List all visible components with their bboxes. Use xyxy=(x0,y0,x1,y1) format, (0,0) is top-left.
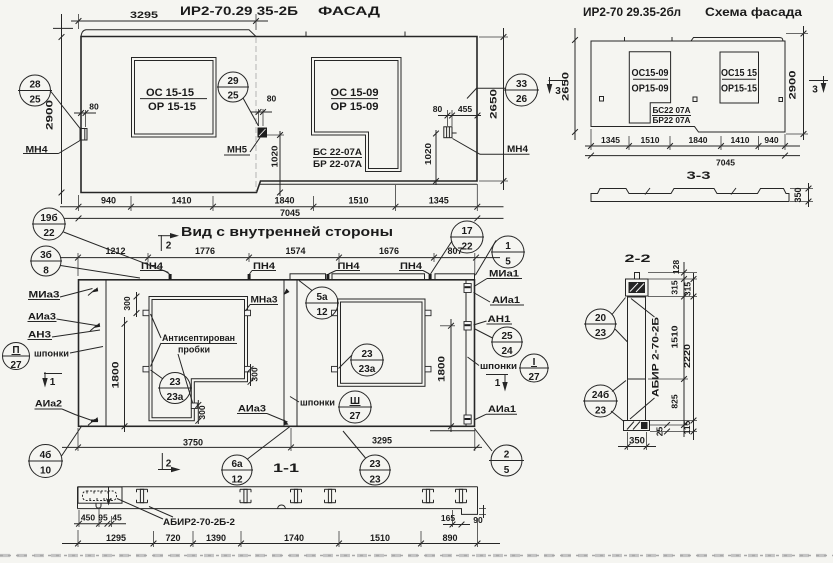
pointer with arrow in block xyxy=(108,488,110,505)
svg-text:Схема фасада: Схема фасада xyxy=(705,7,803,19)
svg-text:350: 350 xyxy=(793,187,803,202)
callout 23/23 bottom xyxy=(343,431,391,486)
svg-text:2: 2 xyxy=(504,450,510,461)
label АИа3 left xyxy=(28,312,97,326)
svg-text:2220: 2220 xyxy=(682,344,692,368)
callout 28/25 xyxy=(18,75,52,106)
plug w1 bottom xyxy=(191,403,197,409)
label ПН4 no.4 xyxy=(399,261,430,274)
svg-text:25: 25 xyxy=(501,331,513,342)
plug w1 top-right xyxy=(245,310,251,316)
middle bottom dim 3750 / 3295 xyxy=(62,428,482,451)
svg-text:1: 1 xyxy=(50,377,56,388)
dim 300 w1 top xyxy=(122,292,139,317)
middle window 1 (L-shaped) xyxy=(149,297,248,421)
svg-text:ОР15-15: ОР15-15 xyxy=(721,84,757,95)
window ОС15-15 opening xyxy=(132,58,217,138)
hook ПН4 no.2 xyxy=(248,274,251,280)
svg-text:2: 2 xyxy=(166,241,172,252)
2-2 extension lines xyxy=(648,273,697,432)
facade panel outline xyxy=(81,37,477,193)
top pad 2 xyxy=(332,274,425,280)
mounting mark right xyxy=(779,98,783,102)
svg-text:1: 1 xyxy=(495,378,501,389)
svg-text:2900: 2900 xyxy=(45,100,56,130)
svg-text:33: 33 xyxy=(516,79,528,90)
svg-text:ОР 15-09: ОР 15-09 xyxy=(331,101,379,113)
callout 5а/12 xyxy=(299,281,339,320)
svg-text:1510: 1510 xyxy=(370,533,390,543)
1-1 strip bottom edge xyxy=(78,508,463,510)
label Антисептированы пробки xyxy=(151,314,238,403)
dim 80 at left anchor xyxy=(74,102,99,128)
svg-text:Антисептирован: Антисептирован xyxy=(162,333,235,343)
callout 29/25 xyxy=(217,72,249,102)
svg-text:БР22 07А: БР22 07А xyxy=(653,116,691,125)
svg-text:5: 5 xyxy=(505,257,511,268)
svg-text:1800: 1800 xyxy=(437,356,447,382)
hook ПН4 no.1 xyxy=(169,274,172,280)
svg-text:23: 23 xyxy=(595,406,607,417)
schema parapet band xyxy=(691,38,783,42)
svg-text:10: 10 xyxy=(40,466,52,477)
callout 19б/22 xyxy=(32,208,169,273)
label АИа1 xyxy=(474,293,525,306)
svg-text:29: 29 xyxy=(227,76,239,87)
label МИа3 xyxy=(28,289,93,300)
label ПН4 no.3 xyxy=(329,261,361,274)
svg-text:1410: 1410 xyxy=(171,196,191,206)
top pad 3 xyxy=(435,274,475,280)
svg-text:1510: 1510 xyxy=(670,325,680,348)
label МН5 xyxy=(224,138,260,156)
plug w1 top-left xyxy=(143,310,149,316)
callout 24б/23 xyxy=(583,381,626,422)
svg-text:1574: 1574 xyxy=(285,246,305,256)
dim 300 w1 notch xyxy=(248,364,260,386)
lifting tick right xyxy=(404,32,406,37)
svg-text:АИа1: АИа1 xyxy=(488,404,516,414)
schema lifting tick left xyxy=(624,37,626,41)
svg-text:22: 22 xyxy=(461,242,473,253)
facade right dim 2650 xyxy=(479,28,508,190)
plug w1 mid-left xyxy=(143,366,149,372)
label АБИР2-70-2Б-2 xyxy=(117,499,235,528)
mounting mark middle xyxy=(693,97,697,102)
svg-text:23: 23 xyxy=(369,475,381,486)
callout 17/22 xyxy=(431,221,485,274)
label ПН4 no.2 xyxy=(250,261,277,274)
svg-text:ФАСАД: ФАСАД xyxy=(318,4,381,18)
svg-text:25: 25 xyxy=(29,95,41,106)
schema lifting tick right xyxy=(671,37,673,41)
svg-text:940: 940 xyxy=(101,196,116,206)
schema window ОС15-09 (L-shaped) xyxy=(629,52,670,123)
svg-text:6а: 6а xyxy=(231,459,243,470)
section mark 3 right xyxy=(809,76,828,96)
svg-text:3б: 3б xyxy=(40,249,52,261)
svg-text:7045: 7045 xyxy=(280,208,300,218)
joint hook top xyxy=(284,289,290,296)
svg-text:шпонки: шпонки xyxy=(300,398,335,408)
middle top dim row 1212 1776 1574 1676 807 xyxy=(60,246,500,276)
label АБИР 2-70-2Б rotated xyxy=(630,299,661,420)
window label ОС15-09/ОР15-09 xyxy=(331,87,379,113)
svg-text:5: 5 xyxy=(504,465,510,476)
svg-text:МИа1: МИа1 xyxy=(489,269,519,279)
svg-text:26: 26 xyxy=(516,94,528,105)
2-2 body bar xyxy=(628,297,646,421)
label МИа1 xyxy=(474,269,522,287)
svg-text:45: 45 xyxy=(112,513,122,523)
facade bottom edge second line xyxy=(260,183,477,185)
1-1 bottom dim row 1295 720 1390 1740 1510 890 xyxy=(62,518,500,547)
callout 3б/8 xyxy=(30,246,140,278)
schema right dim 2900 xyxy=(786,26,808,140)
facade dim 7045 xyxy=(64,208,504,221)
1-1 window channel 3 xyxy=(291,489,302,502)
callout 6а/12 xyxy=(221,427,290,486)
section 3-3 break marks xyxy=(645,188,650,195)
schema window label ОС15-09/ОР15-09 xyxy=(632,68,669,95)
schema label БС22 07А/БР22 07А xyxy=(652,106,691,125)
svg-text:1390: 1390 xyxy=(206,533,226,543)
plug w1 mid-right xyxy=(245,366,251,372)
svg-text:4б: 4б xyxy=(40,449,52,461)
facade bottom dim row 940 1410 1840 1510 1345 xyxy=(60,184,504,211)
svg-text:27: 27 xyxy=(349,411,361,422)
svg-text:АБИР 2-70-2Б: АБИР 2-70-2Б xyxy=(651,316,661,397)
2-2 top stub xyxy=(635,273,640,280)
label АН1 xyxy=(474,314,513,325)
1-1 window channel 6 xyxy=(456,489,467,502)
svg-text:300: 300 xyxy=(197,405,207,419)
label АН3 xyxy=(28,330,101,340)
section mark 3 left xyxy=(547,77,565,97)
panel bottom edge double line right xyxy=(430,430,475,432)
svg-text:2-2: 2-2 xyxy=(625,253,651,265)
dim 300 w1 bottom xyxy=(195,400,207,424)
svg-text:БР 22-07А: БР 22-07А xyxy=(313,159,363,169)
dim 1800 left xyxy=(111,317,128,432)
section 3-3 profile xyxy=(591,189,789,202)
svg-text:1840: 1840 xyxy=(689,135,708,145)
svg-text:3295: 3295 xyxy=(372,436,392,446)
svg-text:95: 95 xyxy=(98,513,108,523)
rib anchor mark mid xyxy=(94,323,101,328)
svg-text:12: 12 xyxy=(231,475,243,486)
rib plug right bottom xyxy=(464,415,471,424)
2-2 dim line inner: 128 315 1510 825 xyxy=(670,260,687,437)
svg-text:1410: 1410 xyxy=(731,135,750,145)
hook ПН4 no.3 xyxy=(326,274,329,280)
svg-text:шпонки: шпонки xyxy=(34,349,69,359)
section mark 2 bottom xyxy=(158,453,181,472)
svg-text:1840: 1840 xyxy=(274,196,294,206)
svg-text:315: 315 xyxy=(670,280,680,294)
svg-text:АИа1: АИа1 xyxy=(492,295,520,305)
callout 23/23а w1 xyxy=(151,370,193,404)
svg-text:22: 22 xyxy=(43,228,55,239)
svg-text:115: 115 xyxy=(682,420,692,434)
facade joint line xyxy=(255,37,257,192)
svg-text:пробки: пробки xyxy=(178,345,210,355)
svg-text:455: 455 xyxy=(458,104,472,114)
svg-text:шпонки: шпонки xyxy=(480,361,517,371)
svg-text:3: 3 xyxy=(555,86,561,97)
svg-text:23а: 23а xyxy=(167,392,184,403)
svg-text:28: 28 xyxy=(29,80,41,91)
top pad 1 xyxy=(290,274,326,280)
svg-text:МН4: МН4 xyxy=(507,144,528,154)
svg-text:3: 3 xyxy=(812,85,818,96)
svg-text:МНа3: МНа3 xyxy=(251,295,278,305)
leader 28/25 to anchor xyxy=(51,91,81,129)
label шпонки + callout Ш/27 xyxy=(290,391,372,423)
lifting tick left xyxy=(305,32,307,37)
svg-text:1740: 1740 xyxy=(284,533,304,543)
plug w2 top-right xyxy=(425,310,431,316)
1-1 strip right end + foot xyxy=(462,487,478,515)
label МН4 right xyxy=(453,139,530,155)
label ПН4 no.1 xyxy=(140,261,170,274)
joint hook bottom xyxy=(284,419,289,426)
svg-text:МН5: МН5 xyxy=(227,145,247,155)
section mark 1 left xyxy=(42,372,62,388)
plug w2 top-left xyxy=(332,310,338,316)
left dim 2900 xyxy=(45,14,74,204)
svg-text:19б: 19б xyxy=(40,212,57,224)
schema dim 7045 xyxy=(585,153,800,168)
svg-text:3-3: 3-3 xyxy=(687,170,711,182)
svg-text:825: 825 xyxy=(670,394,680,408)
svg-text:20: 20 xyxy=(595,313,607,324)
rib plug right top xyxy=(464,284,471,293)
1-1 dims 165 and 90 xyxy=(441,505,486,527)
section mark 1 right xyxy=(486,375,508,392)
schema panel outline xyxy=(591,41,785,132)
svg-text:2650: 2650 xyxy=(561,72,571,101)
svg-text:АН1: АН1 xyxy=(488,314,511,324)
callout 1/5 xyxy=(476,236,526,275)
hook ПН4 no.4 xyxy=(429,274,432,280)
svg-text:2: 2 xyxy=(166,459,172,470)
svg-text:АИа3: АИа3 xyxy=(238,404,266,414)
svg-text:12: 12 xyxy=(316,307,328,318)
dim 1800 right xyxy=(437,319,456,432)
svg-text:23: 23 xyxy=(169,377,181,388)
1-1 window channel 4 xyxy=(325,489,336,502)
svg-text:МИа3: МИа3 xyxy=(29,290,60,300)
anchor МН4 left xyxy=(80,129,87,141)
svg-text:3295: 3295 xyxy=(130,10,158,20)
svg-text:ОС15 15: ОС15 15 xyxy=(721,68,757,79)
plug w2 mid-right xyxy=(425,366,431,372)
svg-text:128: 128 xyxy=(671,260,681,274)
svg-text:1510: 1510 xyxy=(641,135,660,145)
svg-text:940: 940 xyxy=(764,135,778,145)
svg-text:1776: 1776 xyxy=(195,246,215,256)
svg-text:25: 25 xyxy=(227,91,239,102)
1-1 window channel 1 xyxy=(137,489,148,502)
2-2 top box xyxy=(626,273,649,297)
1-1 strip top edge xyxy=(78,486,478,488)
svg-text:ПН4: ПН4 xyxy=(253,261,275,271)
svg-text:17: 17 xyxy=(461,226,473,237)
svg-text:165: 165 xyxy=(441,513,455,523)
svg-text:3750: 3750 xyxy=(183,438,203,448)
callout 20/23 xyxy=(584,298,628,343)
1-1 dims 450 95 45 xyxy=(74,508,126,527)
svg-text:АН3: АН3 xyxy=(28,330,51,340)
svg-text:450: 450 xyxy=(81,513,95,523)
schema dim row 1345 1510 1840 1410 940 xyxy=(585,129,800,150)
callout 25/24 xyxy=(474,327,523,357)
facade parapet band xyxy=(81,30,256,37)
svg-text:ОР 15-15: ОР 15-15 xyxy=(148,101,196,113)
1-1 strip left end xyxy=(77,487,79,509)
2-2 dim 25 xyxy=(655,422,670,436)
svg-text:23: 23 xyxy=(369,459,381,470)
1-1 bottom notch xyxy=(278,505,286,509)
svg-text:1020: 1020 xyxy=(423,143,433,165)
svg-text:23: 23 xyxy=(595,328,607,339)
svg-text:БС 22-07А: БС 22-07А xyxy=(313,147,363,157)
1-1 window channel 2 xyxy=(240,489,251,502)
svg-text:1510: 1510 xyxy=(348,196,368,206)
svg-text:7045: 7045 xyxy=(716,158,735,168)
svg-text:ИР2-70.29 35-2Б: ИР2-70.29 35-2Б xyxy=(180,4,298,18)
joint rib right line xyxy=(296,280,298,427)
svg-text:300: 300 xyxy=(250,367,260,381)
svg-text:8: 8 xyxy=(43,266,49,277)
label МНа3 right of w1 xyxy=(246,295,279,312)
svg-text:1-1: 1-1 xyxy=(273,463,300,475)
2-2 bottom shoe xyxy=(624,421,650,431)
svg-text:ОС 15-09: ОС 15-09 xyxy=(331,87,379,99)
svg-text:1800: 1800 xyxy=(111,362,121,389)
svg-text:300: 300 xyxy=(122,296,132,310)
section 3-3 dim 350 xyxy=(790,183,813,207)
svg-text:ОР15-09: ОР15-09 xyxy=(632,84,669,95)
svg-text:315: 315 xyxy=(683,282,693,296)
anchor МН4 right xyxy=(444,127,457,138)
label шпонки + callout I/27 right xyxy=(468,354,550,383)
schema left dim 2650 xyxy=(561,28,578,140)
svg-text:890: 890 xyxy=(442,533,457,543)
svg-text:24: 24 xyxy=(501,346,513,357)
svg-text:2650: 2650 xyxy=(489,89,500,119)
svg-text:ИР2-70 29.35-2бл: ИР2-70 29.35-2бл xyxy=(583,7,681,19)
svg-text:23: 23 xyxy=(361,349,373,360)
svg-text:90: 90 xyxy=(473,515,483,525)
2-2 dim 350 xyxy=(618,432,656,450)
dim 1020 at right anchor xyxy=(423,130,439,185)
middle window 2 xyxy=(338,299,426,386)
svg-text:1020: 1020 xyxy=(270,145,280,167)
1-1 window channel 5 xyxy=(423,489,434,502)
1-1 left rib block xyxy=(78,487,122,508)
anchor МН5 middle xyxy=(258,128,268,138)
svg-text:5а: 5а xyxy=(316,292,328,303)
svg-text:27: 27 xyxy=(528,372,540,383)
svg-text:ПН4: ПН4 xyxy=(400,261,422,271)
svg-text:80: 80 xyxy=(433,104,443,114)
window ОС15-09 opening (L-shaped) xyxy=(312,58,402,172)
svg-text:720: 720 xyxy=(165,533,180,543)
svg-text:24б: 24б xyxy=(592,389,609,401)
middle panel outline xyxy=(79,280,475,427)
schema window label ОС15 15/ОР15-15 xyxy=(721,68,757,95)
label АИа2 xyxy=(35,399,99,423)
callout 2/5 xyxy=(475,429,525,477)
dim 80 at middle anchor xyxy=(251,94,276,127)
schema window ОС15-15 xyxy=(720,52,759,103)
window label ОС15-15/ОР15-15 xyxy=(140,87,207,113)
bottom scan band xyxy=(0,554,833,557)
svg-text:АБИР2-70-2Б-2: АБИР2-70-2Б-2 xyxy=(163,517,235,527)
svg-text:АИа2: АИа2 xyxy=(35,399,62,409)
svg-text:1676: 1676 xyxy=(379,246,399,256)
svg-text:23а: 23а xyxy=(359,364,376,375)
dim 3295 xyxy=(71,10,268,30)
dim 80 and 455 at right anchor xyxy=(433,104,481,126)
callout П/27 + шпонки xyxy=(2,343,103,372)
callout 23/23а w2 xyxy=(339,344,385,376)
2-2 dim line outer: 315 2220 115 xyxy=(682,273,696,440)
mounting mark left xyxy=(600,97,604,102)
svg-text:ОС15-09: ОС15-09 xyxy=(632,68,669,79)
callout 33/26 xyxy=(504,74,539,106)
left rib line xyxy=(105,280,107,427)
svg-text:27: 27 xyxy=(10,360,22,371)
rib plug right mid xyxy=(464,322,471,331)
hook under rib block xyxy=(96,503,101,508)
label АИа1 bottom right xyxy=(474,404,517,420)
leader 33/26 to anchor xyxy=(467,88,506,98)
label МН4 left xyxy=(23,141,80,155)
svg-text:1295: 1295 xyxy=(106,533,126,543)
svg-text:80: 80 xyxy=(89,102,99,112)
svg-text:БС22 07А: БС22 07А xyxy=(653,106,691,115)
callout 4б/10 xyxy=(28,426,82,478)
right rib line xyxy=(465,280,467,427)
section mark 2 top xyxy=(158,233,179,252)
svg-text:1: 1 xyxy=(505,241,511,252)
label БС22-07А/БР22-07А xyxy=(313,147,363,169)
svg-text:2900: 2900 xyxy=(788,71,798,100)
svg-text:1345: 1345 xyxy=(601,135,620,145)
svg-text:ПН4: ПН4 xyxy=(338,261,360,271)
dim 1020 at middle anchor xyxy=(267,131,284,196)
svg-text:АИа3: АИа3 xyxy=(28,312,56,322)
svg-text:350: 350 xyxy=(629,436,645,447)
rib anchor mark bottom xyxy=(92,417,99,422)
leader 29/25 to anchor xyxy=(243,98,259,126)
plug w2 mid-left xyxy=(332,366,338,372)
svg-text:ОС 15-15: ОС 15-15 xyxy=(146,87,194,99)
svg-text:Вид с внутренней стороны: Вид с внутренней стороны xyxy=(181,225,393,239)
joint rib left line xyxy=(283,280,285,427)
svg-text:25: 25 xyxy=(655,427,665,437)
svg-text:80: 80 xyxy=(267,94,277,104)
label АИа3 bottom middle xyxy=(237,404,288,423)
rib anchor mark top xyxy=(92,287,99,292)
svg-text:1345: 1345 xyxy=(429,196,449,206)
